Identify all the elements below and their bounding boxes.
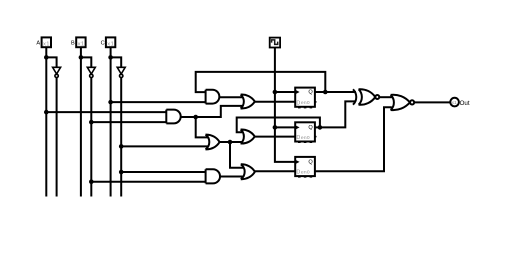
svg-text:Q: Q <box>308 125 313 131</box>
svg-text:x1: x1 <box>452 100 457 106</box>
wire FF3 output to NOR input2 <box>315 107 392 171</box>
input pin B <box>71 37 86 47</box>
junction FF1 Q branch <box>323 90 328 95</box>
AND gate top (U1) <box>206 90 220 104</box>
wire AND1 output branch to OR2 input1 <box>196 117 208 137</box>
OR gate U5 (middle-left) <box>206 135 220 150</box>
OR gate U6 (feeds FF2 D) <box>241 129 255 143</box>
wire branch B to inverter <box>81 57 91 67</box>
inverter NOT-C <box>117 67 125 77</box>
XNOR gate U8 <box>353 89 379 105</box>
NOR gate U9 <box>391 95 415 110</box>
svg-text:Out: Out <box>460 100 470 107</box>
svg-text:Q: Q <box>308 160 313 166</box>
junction on rail B (inverter tap) <box>79 55 84 60</box>
output pin Out <box>450 98 470 107</box>
junction rail C at AND-top input <box>108 100 113 105</box>
OR gate U7 (feeds FF3 D) <box>241 164 255 179</box>
svg-text:Q: Q <box>308 90 313 96</box>
junction rail A at AND1 input <box>44 110 49 115</box>
AND gate middle-left (U2) <box>166 110 180 124</box>
wire rail B-inverted <box>90 78 92 197</box>
wire AND1 output to OR U4 input2 <box>181 106 242 117</box>
svg-text:A: A <box>36 40 40 46</box>
input pin A <box>36 37 51 47</box>
svg-text:D: D <box>296 100 300 106</box>
clock CLK <box>270 38 280 48</box>
wire rail B <box>80 47 82 196</box>
junction AND1 output branch <box>193 115 198 120</box>
wire branch C to inverter <box>111 57 122 67</box>
wire XNOR output to NOR input1 <box>379 96 392 98</box>
wire B-inverted to AND1 input2 <box>91 121 166 123</box>
svg-text:x1: x1 <box>107 42 114 48</box>
junction on rail C (inverter tap) <box>108 55 113 60</box>
wire NOR output to output pin <box>414 101 450 103</box>
wire FF1 Q to XNOR input1 <box>315 91 356 93</box>
svg-text:B: B <box>71 40 75 46</box>
wire clock rail <box>275 48 295 162</box>
D flip-flop FF2 <box>295 122 316 142</box>
junction OR2 output branch <box>228 140 233 145</box>
junction rail C-inv at OR2 input <box>119 144 124 149</box>
wire rail C <box>110 47 112 196</box>
svg-text:x1: x1 <box>78 42 85 48</box>
svg-text:en0: en0 <box>301 170 310 176</box>
svg-text:D: D <box>296 135 300 141</box>
wire FF2 Q to XNOR input2 <box>320 101 356 127</box>
D flip-flop FF3 <box>295 157 315 177</box>
wire OR U7 output to FF3 D <box>255 170 295 172</box>
svg-text:D: D <box>296 170 300 176</box>
wire clock to FF1 <box>275 91 295 93</box>
wire clock to FF2 <box>275 126 295 128</box>
wire OR2 branch to OR U7 input1 <box>230 142 243 168</box>
wire branch A to inverter <box>46 57 56 67</box>
junction rail B-inv at AND2 input <box>89 179 94 184</box>
AND gate bottom (U3) <box>206 169 220 183</box>
OR gate U4 (top, feeds FF1 D) <box>241 95 255 109</box>
wire C-inverted to AND2 input1 <box>121 171 205 173</box>
wire FF2 Q feedback to OR U6 input1 <box>237 118 320 133</box>
wire A to AND1 input1 <box>46 111 166 113</box>
D flip-flop FF1 <box>295 88 316 108</box>
svg-text:en0: en0 <box>301 100 310 106</box>
wire C-inverted to OR2 input2 <box>121 145 208 147</box>
junction on rail A (inverter tap) <box>44 55 49 60</box>
wire OR2 output junction <box>220 141 243 143</box>
junction rail B-inv at AND1 input <box>89 120 94 125</box>
svg-text:x1: x1 <box>43 42 50 48</box>
wire OR U4 output to FF1 D <box>255 101 295 103</box>
input pin C <box>101 37 116 47</box>
svg-text:en0: en0 <box>301 135 310 141</box>
wire C to AND-top input2 <box>111 101 206 103</box>
wire AND-top output to OR U4 <box>219 96 242 98</box>
wire B-inverted to AND2 input2 <box>91 181 205 183</box>
wire OR U6 output to FF2 D <box>255 136 296 138</box>
junction FF2 Q branch <box>318 125 323 130</box>
wire rail C-inverted <box>120 78 122 197</box>
junction clock at FF1 <box>273 90 278 95</box>
wire AND2 output to OR U7 input2 <box>220 176 243 178</box>
junction rail C-inv at AND2 input <box>119 170 124 175</box>
wire FF2 Q stub <box>315 126 320 128</box>
inverter NOT-A <box>53 67 61 77</box>
svg-text:C: C <box>101 40 105 46</box>
wire rail A-inverted <box>56 78 58 197</box>
wire rail A <box>45 47 47 196</box>
inverter NOT-B <box>87 67 95 77</box>
wire FF1 Q feedback to AND-top input1 <box>196 72 326 92</box>
junction clock at FF2 <box>273 125 278 130</box>
